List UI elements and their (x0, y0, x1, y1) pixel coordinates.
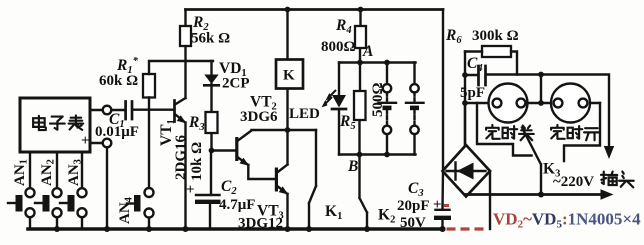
svg-text:K: K (283, 68, 295, 84)
svg-text:20pF: 20pF (397, 198, 430, 214)
svg-text:3DG6: 3DG6 (240, 109, 278, 125)
svg-text:56k Ω: 56k Ω (191, 31, 230, 47)
svg-text:2CP: 2CP (222, 76, 250, 92)
svg-text:4.7μF: 4.7μF (219, 197, 255, 213)
svg-text:300k Ω: 300k Ω (472, 28, 519, 44)
svg-text:+: + (186, 182, 195, 198)
svg-text:800Ω: 800Ω (321, 39, 356, 55)
svg-text:~220V: ~220V (553, 174, 594, 190)
svg-text:+: + (433, 197, 442, 213)
svg-text:0.01μF: 0.01μF (95, 124, 139, 140)
svg-text:500Ω: 500Ω (370, 82, 386, 117)
svg-text:LED: LED (289, 106, 320, 122)
svg-text:5pF: 5pF (460, 85, 485, 101)
svg-text:60k Ω: 60k Ω (99, 73, 138, 89)
svg-text:A: A (362, 43, 373, 60)
svg-text:B: B (347, 158, 358, 175)
svg-text:+: + (81, 133, 90, 149)
svg-text:2DG16: 2DG16 (173, 135, 189, 181)
svg-text:10k Ω: 10k Ω (189, 142, 205, 181)
svg-text:VD2~VD5:1N4005×4: VD2~VD5:1N4005×4 (493, 210, 641, 231)
svg-text:3DG12: 3DG12 (238, 216, 283, 232)
svg-text:50V: 50V (400, 215, 426, 231)
